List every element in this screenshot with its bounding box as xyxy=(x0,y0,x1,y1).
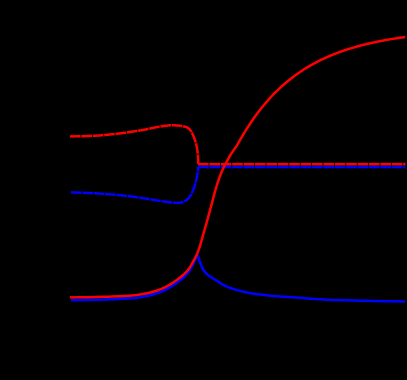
red dashed horizontal line xyxy=(198,163,406,166)
red solid curve: flat left branch then steep rise saturating to top right xyxy=(70,37,405,297)
blue dashed lower arc (imaginary part, lower branch) xyxy=(71,167,198,203)
blue solid curve: left branch rising to collision then decaying right branch xyxy=(71,255,405,302)
blue dashed horizontal line xyxy=(198,166,406,169)
red dashed upper arc (imaginary part, upper branch) xyxy=(70,125,198,164)
